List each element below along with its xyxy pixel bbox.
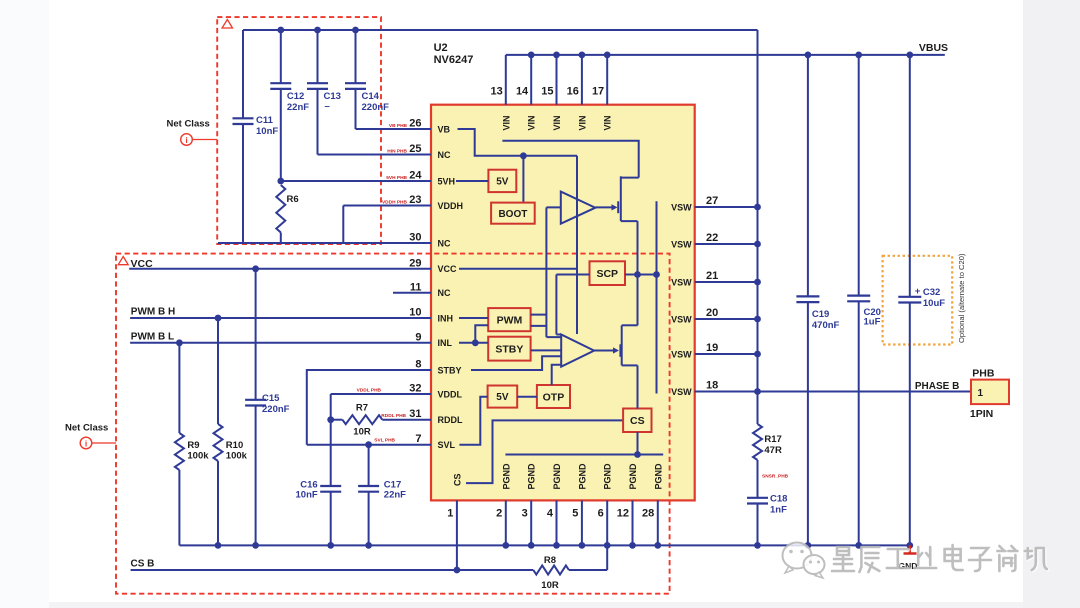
svg-text:VIN: VIN bbox=[577, 115, 587, 130]
svg-text:11: 11 bbox=[410, 281, 422, 293]
net-class marker triangle (VCC box) bbox=[118, 257, 128, 265]
svg-text:VSW: VSW bbox=[671, 387, 692, 397]
svg-text:PGND: PGND bbox=[501, 463, 511, 490]
capacitor C32 (polarized) bbox=[906, 52, 913, 59]
svg-text:PGND: PGND bbox=[552, 463, 562, 490]
svg-text:Net Class: Net Class bbox=[167, 119, 210, 130]
svg-text:4: 4 bbox=[547, 508, 554, 520]
svg-text:PGND: PGND bbox=[653, 463, 663, 490]
wire NC pin11 stub bbox=[393, 292, 431, 294]
svg-text:1: 1 bbox=[447, 508, 453, 520]
wire PWM B H bbox=[130, 317, 431, 319]
wire driver input (from PWM) bbox=[546, 207, 561, 337]
wire CS pin to CS block bbox=[466, 420, 623, 483]
svg-text:C14: C14 bbox=[362, 91, 380, 102]
wire high-side source down bbox=[637, 221, 639, 325]
svg-text:VIN: VIN bbox=[552, 115, 562, 130]
ground bbox=[904, 545, 917, 553]
optional dotted box around C32 bbox=[883, 256, 953, 345]
wire STBY-SVL bracket bbox=[307, 370, 431, 445]
svg-text:R9: R9 bbox=[187, 440, 199, 451]
pin 14 VIN wire bbox=[530, 55, 532, 105]
svg-text:U2: U2 bbox=[434, 42, 448, 54]
wire to BOOT bbox=[522, 156, 524, 203]
svg-text:PGND: PGND bbox=[628, 463, 638, 490]
svg-text:VSW: VSW bbox=[671, 314, 692, 324]
port PHB bbox=[971, 380, 1009, 405]
wire VIN rail to high-side FET drain bbox=[502, 141, 638, 178]
node SVL-C17 junction bbox=[365, 441, 372, 448]
svg-text:VSW: VSW bbox=[671, 349, 692, 359]
svg-text:VB: VB bbox=[438, 124, 451, 134]
svg-text:6: 6 bbox=[598, 508, 604, 520]
svg-text:13: 13 bbox=[491, 86, 503, 98]
pin 17 VIN wire bbox=[606, 55, 608, 105]
svg-text:PWM: PWM bbox=[497, 314, 523, 326]
capacitor C14 bbox=[352, 27, 359, 34]
capacitor C16 bbox=[320, 485, 341, 487]
pin 6 bottom wire bbox=[606, 500, 608, 545]
svg-text:SNSR_PHB: SNSR_PHB bbox=[762, 474, 789, 480]
svg-text:BOOT: BOOT bbox=[498, 209, 527, 220]
pin 5 bottom wire bbox=[581, 500, 583, 545]
pin 18 VSW wire bbox=[695, 391, 758, 393]
svg-text:23: 23 bbox=[409, 194, 421, 206]
wire OTP to driver bbox=[552, 365, 562, 385]
pin 19 VSW wire bbox=[695, 353, 758, 355]
svg-text:10nF: 10nF bbox=[296, 489, 318, 500]
svg-text:28: 28 bbox=[642, 508, 654, 520]
wire CS B bbox=[131, 569, 534, 571]
svg-text:VDDL PHB: VDDL PHB bbox=[357, 388, 382, 394]
svg-text:10: 10 bbox=[409, 307, 421, 319]
svg-text:7: 7 bbox=[415, 433, 421, 445]
svg-text:14: 14 bbox=[516, 86, 529, 98]
svg-text:21: 21 bbox=[706, 270, 718, 282]
wire 5VH to 5V block bbox=[456, 180, 488, 182]
svg-text:C18: C18 bbox=[770, 494, 787, 505]
svg-text:C12: C12 bbox=[287, 91, 304, 102]
svg-text:PWM B L: PWM B L bbox=[131, 332, 174, 343]
transistor low-side FET bbox=[619, 344, 621, 357]
svg-text:PGND: PGND bbox=[603, 463, 613, 490]
wire pin30 bottom net bbox=[218, 242, 431, 244]
svg-text:26: 26 bbox=[409, 118, 421, 130]
svg-text:22nF: 22nF bbox=[287, 102, 309, 113]
capacitor C15 bbox=[255, 269, 257, 400]
block STBY bbox=[488, 337, 530, 361]
pin 27 VSW wire bbox=[695, 206, 758, 208]
svg-text:22: 22 bbox=[706, 232, 718, 244]
svg-text:C32: C32 bbox=[923, 287, 940, 298]
wire internal VSW sense bbox=[656, 201, 658, 393]
wire internal PGND rail bbox=[505, 454, 663, 456]
svg-text:2: 2 bbox=[496, 508, 502, 520]
svg-text:C11: C11 bbox=[256, 115, 274, 126]
wire PHASE B bbox=[695, 391, 971, 393]
svg-text:i: i bbox=[185, 135, 187, 145]
svg-text:NC: NC bbox=[438, 288, 451, 298]
node rail junction bbox=[327, 542, 334, 549]
node VCC-C15 junction bbox=[252, 265, 259, 272]
wire ground rail bbox=[179, 544, 911, 546]
capacitor C20 bbox=[855, 52, 862, 59]
svg-text:SCP: SCP bbox=[596, 268, 618, 280]
svg-text:VDDH PHB: VDDH PHB bbox=[382, 200, 408, 206]
svg-text:16: 16 bbox=[567, 86, 579, 98]
svg-text:NV6247: NV6247 bbox=[434, 54, 474, 66]
pin 16 VIN wire bbox=[581, 55, 583, 105]
op-amp U2 chip body NV6247 bbox=[431, 105, 695, 501]
svg-text:5V: 5V bbox=[496, 392, 509, 403]
wire pin24 5VH net bbox=[281, 180, 431, 182]
svg-text:5: 5 bbox=[572, 508, 578, 520]
svg-text:10R: 10R bbox=[353, 427, 371, 438]
resistor R9 bbox=[178, 343, 180, 433]
svg-text:32: 32 bbox=[409, 383, 421, 395]
wire CS block down to rail bbox=[637, 432, 639, 455]
pin 13 VIN wire bbox=[505, 55, 507, 105]
svg-text:+: + bbox=[915, 286, 921, 297]
pin 2 bottom wire bbox=[505, 500, 507, 545]
svg-text:R8: R8 bbox=[544, 555, 556, 566]
net-class dashed box VCC (large) bbox=[116, 254, 670, 594]
pin 1 bottom wire bbox=[456, 500, 458, 570]
svg-text:Net Class: Net Class bbox=[65, 423, 108, 434]
pin 3 bottom wire bbox=[530, 500, 532, 545]
wire VB internal bbox=[458, 129, 578, 156]
svg-text:SVL: SVL bbox=[438, 440, 456, 450]
watermark text bbox=[832, 545, 1048, 573]
node rail junction bbox=[252, 542, 259, 549]
node PWM B L junction bbox=[176, 339, 183, 346]
block CS bbox=[623, 409, 651, 433]
svg-text:100k: 100k bbox=[187, 451, 209, 462]
node VB junction bbox=[520, 152, 527, 159]
svg-text:NC: NC bbox=[438, 238, 451, 248]
svg-text:PHASE B: PHASE B bbox=[915, 381, 959, 392]
svg-text:R7: R7 bbox=[356, 403, 368, 414]
block 5V (low side) bbox=[488, 386, 518, 408]
svg-text:10nF: 10nF bbox=[256, 126, 278, 137]
svg-text:Optional (alternate to C20): Optional (alternate to C20) bbox=[957, 253, 966, 343]
svg-text:10uF: 10uF bbox=[923, 298, 945, 309]
pin 4 bottom wire bbox=[556, 500, 558, 545]
svg-text:STBY: STBY bbox=[438, 365, 462, 375]
capacitor C11 bbox=[242, 30, 244, 118]
node INL junction bbox=[472, 339, 479, 346]
transistor high-side FET bbox=[617, 201, 619, 213]
wire VDDL net bbox=[331, 393, 431, 395]
wire pin26 VB net bbox=[356, 128, 432, 130]
wire pin23 VDDH net bbox=[343, 206, 431, 244]
pin 22 VSW wire bbox=[695, 243, 758, 245]
svg-text:INL: INL bbox=[438, 338, 453, 348]
node rail R17 junction bbox=[754, 542, 761, 549]
svg-text:PGND: PGND bbox=[577, 463, 587, 490]
svg-text:R10: R10 bbox=[226, 440, 243, 451]
pin 28 bottom wire bbox=[657, 500, 659, 545]
wire INL internal bbox=[459, 342, 488, 344]
pin 12 bottom wire bbox=[632, 500, 634, 545]
wire 5V to OTP bbox=[517, 396, 537, 398]
svg-text:1nF: 1nF bbox=[770, 505, 787, 516]
op-amp high-side driver bbox=[561, 192, 596, 224]
svg-text:5V: 5V bbox=[496, 177, 509, 188]
svg-text:10R: 10R bbox=[541, 580, 559, 591]
wire PWM B L bbox=[130, 342, 431, 344]
node rail junction bbox=[215, 542, 222, 549]
svg-text:–: – bbox=[325, 101, 330, 112]
wire VSW bus vertical bbox=[757, 30, 759, 424]
svg-text:8: 8 bbox=[415, 359, 421, 371]
wire INL branch to PWM bbox=[475, 325, 488, 343]
resistor R7 bbox=[330, 394, 332, 486]
svg-text:30: 30 bbox=[409, 232, 421, 244]
svg-text:17: 17 bbox=[592, 86, 604, 98]
svg-text:VCC: VCC bbox=[438, 264, 458, 274]
svg-text:100k: 100k bbox=[226, 451, 248, 462]
resistor R10 bbox=[217, 318, 219, 424]
resistor R8 bbox=[533, 566, 569, 575]
svg-text:PGND: PGND bbox=[527, 463, 537, 490]
wire top bus to VIN header bbox=[243, 29, 758, 31]
svg-text:47R: 47R bbox=[764, 445, 782, 456]
svg-text:SVL PHB: SVL PHB bbox=[374, 438, 395, 444]
svg-text:RDDL PHB: RDDL PHB bbox=[381, 413, 406, 419]
watermark wechat logo bbox=[783, 543, 825, 579]
svg-text:RDDL: RDDL bbox=[438, 415, 463, 425]
op-amp low-side driver bbox=[561, 335, 594, 367]
svg-text:INH: INH bbox=[438, 313, 454, 323]
node rail GND junction bbox=[906, 542, 913, 549]
wire STBY block output bbox=[531, 349, 562, 351]
svg-text:VDDL: VDDL bbox=[438, 389, 463, 399]
svg-text:24: 24 bbox=[409, 170, 422, 182]
block SCP bbox=[590, 261, 626, 285]
net-class dashed box (C11-C14 region) bbox=[217, 17, 381, 244]
svg-text:VSW: VSW bbox=[671, 202, 692, 212]
net-class marker triangle (top box) bbox=[222, 20, 232, 29]
pin 20 VSW wire bbox=[695, 318, 758, 320]
svg-text:i: i bbox=[85, 439, 87, 449]
wire VCC internal bbox=[459, 156, 577, 334]
svg-text:VIN: VIN bbox=[603, 115, 613, 130]
svg-text:R6: R6 bbox=[287, 194, 299, 205]
svg-text:PHB: PHB bbox=[972, 368, 995, 380]
wire INH internal bbox=[459, 317, 488, 319]
capacitor C13 bbox=[314, 27, 321, 34]
svg-text:C19: C19 bbox=[812, 309, 829, 320]
svg-text:VIN: VIN bbox=[527, 115, 537, 130]
capacitor C18 bbox=[747, 497, 768, 499]
svg-text:R17: R17 bbox=[764, 434, 781, 445]
wire CS block to source node bbox=[637, 365, 639, 408]
wire STBY pin internal bbox=[471, 356, 561, 370]
wire pin25 net bbox=[318, 154, 432, 156]
svg-text:OTP: OTP bbox=[543, 391, 565, 403]
svg-text:NC: NC bbox=[438, 150, 451, 160]
svg-text:9: 9 bbox=[415, 331, 421, 343]
svg-text:PWM B H: PWM B H bbox=[131, 307, 175, 318]
wire SCP output bbox=[625, 274, 657, 276]
svg-text:29: 29 bbox=[409, 257, 421, 269]
block OTP bbox=[537, 385, 570, 408]
svg-text:1: 1 bbox=[978, 388, 984, 399]
wire VBUS bus bbox=[506, 54, 945, 56]
wire low-side drain up to SCP node bbox=[637, 275, 639, 326]
node internal rail junction bbox=[634, 451, 641, 458]
capacitor C17 bbox=[368, 445, 370, 486]
svg-text:1PIN: 1PIN bbox=[970, 408, 993, 420]
svg-text:CS: CS bbox=[630, 415, 645, 427]
svg-text:CS B: CS B bbox=[131, 559, 155, 570]
wire SCP input bbox=[556, 275, 589, 335]
resistor R6 bbox=[277, 178, 284, 185]
svg-text:19: 19 bbox=[706, 342, 718, 354]
wire SVL internal bbox=[459, 397, 487, 445]
pin 15 VIN wire bbox=[556, 55, 558, 105]
svg-text:220nF: 220nF bbox=[262, 404, 290, 415]
node rail junction bbox=[365, 542, 372, 549]
wire PWM outputs bbox=[531, 315, 547, 326]
svg-text:HIN PHB: HIN PHB bbox=[387, 149, 407, 155]
svg-text:VDDH: VDDH bbox=[438, 201, 464, 211]
block BOOT bbox=[491, 203, 535, 224]
node SCP junction A bbox=[634, 271, 641, 278]
svg-text:VBUS: VBUS bbox=[919, 42, 948, 54]
pin 21 VSW wire bbox=[695, 281, 758, 283]
svg-text:220nF: 220nF bbox=[362, 102, 390, 113]
svg-text:470nF: 470nF bbox=[812, 320, 840, 331]
svg-text:22nF: 22nF bbox=[384, 489, 406, 500]
capacitor C12 bbox=[277, 27, 284, 34]
svg-text:20: 20 bbox=[706, 307, 718, 319]
svg-text:C15: C15 bbox=[262, 393, 280, 404]
svg-text:27: 27 bbox=[706, 195, 718, 207]
svg-text:1uF: 1uF bbox=[864, 317, 881, 328]
svg-text:5VH PHB: 5VH PHB bbox=[386, 175, 407, 181]
svg-text:VIN: VIN bbox=[501, 115, 511, 130]
svg-text:12: 12 bbox=[617, 508, 629, 520]
block 5V (high side) bbox=[488, 170, 516, 192]
block PWM bbox=[488, 308, 530, 331]
svg-text:31: 31 bbox=[409, 408, 421, 420]
node SCP junction B bbox=[653, 271, 660, 278]
svg-text:18: 18 bbox=[706, 380, 718, 392]
svg-text:VSW: VSW bbox=[671, 239, 692, 249]
svg-text:VB PHB: VB PHB bbox=[389, 123, 408, 129]
capacitor C19 bbox=[805, 52, 812, 59]
svg-text:5VH: 5VH bbox=[438, 176, 456, 186]
wire VCC net bbox=[129, 268, 431, 270]
svg-text:3: 3 bbox=[522, 508, 528, 520]
svg-text:VSW: VSW bbox=[671, 277, 692, 287]
svg-text:CS: CS bbox=[452, 473, 462, 486]
svg-text:15: 15 bbox=[541, 86, 553, 98]
svg-text:STBY: STBY bbox=[495, 343, 523, 355]
resistor R17 bbox=[753, 424, 762, 460]
node PWM B H junction bbox=[215, 315, 222, 322]
svg-text:25: 25 bbox=[409, 143, 421, 155]
